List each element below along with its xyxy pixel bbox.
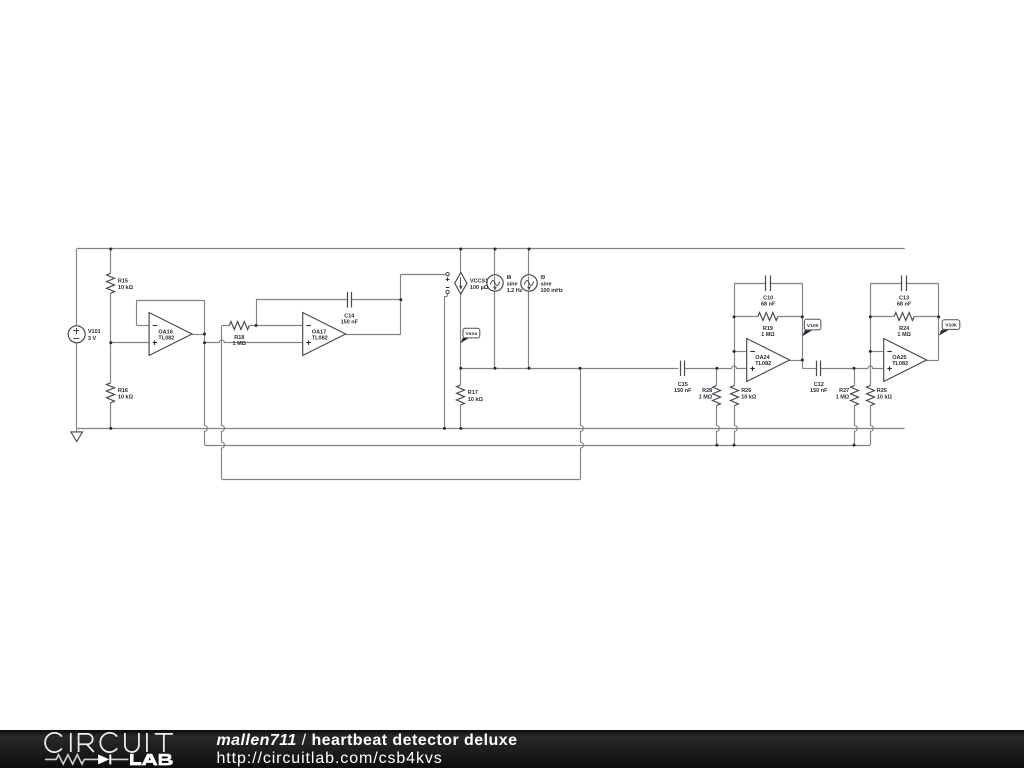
svg-text:V100: V100 [807,323,819,329]
svg-text:1.2 Hz: 1.2 Hz [507,288,523,294]
svg-text:I8: I8 [507,275,512,281]
svg-text:sine: sine [507,282,518,288]
svg-text:1 MΩ: 1 MΩ [897,332,911,338]
svg-text:V10k: V10k [945,323,957,329]
svg-text:TL082: TL082 [312,336,328,342]
svg-text:68 nF: 68 nF [761,302,776,308]
svg-text:R27: R27 [839,388,849,394]
svg-text:C13: C13 [899,296,909,302]
svg-text:C10: C10 [763,296,773,302]
svg-text:1 MΩ: 1 MΩ [836,395,850,401]
svg-text:10 kΩ: 10 kΩ [741,395,757,401]
svg-text:68 nF: 68 nF [897,302,912,308]
svg-text:R17: R17 [468,390,478,396]
svg-text:R26: R26 [741,388,751,394]
svg-text:C12: C12 [814,382,824,388]
svg-text:TL082: TL082 [892,361,908,367]
svg-text:R15: R15 [118,278,128,284]
svg-text:1 MΩ: 1 MΩ [761,332,775,338]
svg-text:10 kΩ: 10 kΩ [877,395,893,401]
svg-text:C15: C15 [678,382,688,388]
svg-text:TL082: TL082 [158,336,174,342]
svg-text:100 mHz: 100 mHz [541,288,564,294]
svg-text:150 nF: 150 nF [810,388,828,394]
svg-text:TL082: TL082 [755,361,771,367]
svg-text:sine: sine [541,282,552,288]
svg-text:I9: I9 [541,275,546,281]
svg-text:1 MΩ: 1 MΩ [699,395,713,401]
svg-text:150 nF: 150 nF [341,319,359,325]
svg-text:100 µΩ: 100 µΩ [470,285,489,291]
svg-text:R25: R25 [877,388,887,394]
svg-text:R28: R28 [702,388,712,394]
svg-text:10 kΩ: 10 kΩ [118,285,134,291]
svg-text:R16: R16 [118,388,128,394]
svg-text:Vsns: Vsns [466,331,478,337]
svg-text:10 kΩ: 10 kΩ [468,397,484,403]
svg-text:10 kΩ: 10 kΩ [118,395,134,401]
svg-text:3 V: 3 V [88,336,97,342]
svg-text:VCCS1: VCCS1 [470,278,488,284]
svg-text:1 MΩ: 1 MΩ [233,341,247,347]
svg-text:C14: C14 [344,313,355,319]
svg-text:150 nF: 150 nF [674,388,692,394]
svg-text:V101: V101 [88,329,101,335]
